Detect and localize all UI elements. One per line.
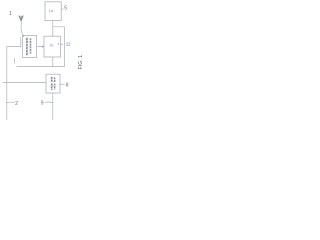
svg-text:1b: 1b — [49, 44, 53, 48]
svg-text:12: 12 — [66, 42, 71, 47]
svg-text:9: 9 — [41, 101, 44, 107]
svg-text:1: 1 — [9, 11, 12, 17]
svg-text:2: 2 — [15, 101, 18, 107]
svg-text:5: 5 — [64, 6, 67, 12]
svg-text:1a: 1a — [49, 9, 53, 13]
svg-text:8: 8 — [66, 83, 69, 89]
svg-text:FIG. 1: FIG. 1 — [78, 55, 84, 70]
